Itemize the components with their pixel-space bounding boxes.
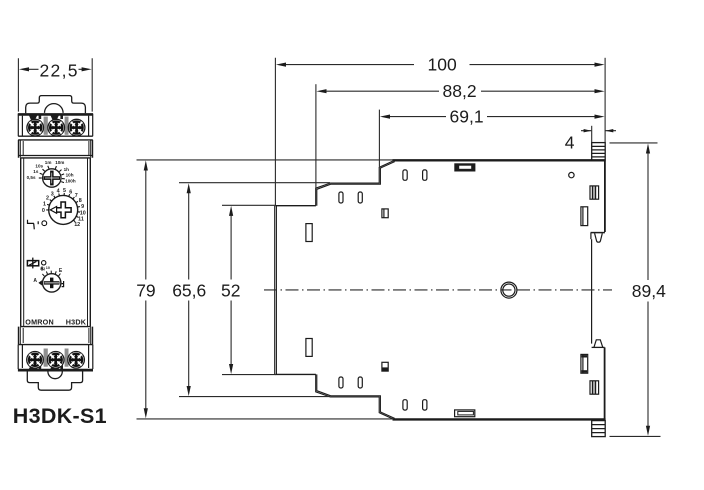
- arrows 52: [229, 206, 233, 216]
- dial1 labels: [27, 160, 76, 184]
- svg-text:7: 7: [75, 193, 78, 199]
- side bottom edge thick: [393, 418, 606, 420]
- latch rod: [591, 239, 593, 343]
- hole: [569, 172, 574, 177]
- ext lines 22,5: [18, 58, 92, 111]
- vent slots deck top: [403, 170, 407, 180]
- ext line 100 left: [274, 58, 276, 205]
- right panel bottom top edge: [592, 346, 605, 348]
- din hook block bottom stripes: [592, 425, 606, 433]
- dial3: [38, 274, 63, 292]
- vent slots shelf top: [339, 192, 343, 203]
- arrows 22,5: [19, 67, 29, 71]
- svg-text:9: 9: [81, 204, 84, 210]
- svg-text:5: 5: [63, 188, 66, 194]
- dim texts: [40, 55, 667, 302]
- lower band: [18, 327, 93, 369]
- svg-text:1s: 1s: [33, 169, 39, 174]
- arrows 4: [584, 129, 592, 132]
- dim line 69,1: [384, 116, 600, 118]
- hatched rect bottom: [590, 381, 599, 394]
- din hook block top stripes: [592, 146, 606, 157]
- svg-text:4: 4: [57, 189, 60, 195]
- top latch tab: [595, 233, 603, 242]
- dim line 52: [230, 211, 232, 370]
- vent slots shelf bottom: [339, 377, 343, 388]
- ext line 4: [591, 126, 593, 143]
- arrows 65,6: [187, 183, 191, 193]
- side top edge thick: [393, 159, 606, 161]
- dim line 65,6: [188, 188, 190, 391]
- svg-text:B2: B2: [40, 267, 45, 271]
- screws bottom: [27, 352, 44, 369]
- svg-text:10m: 10m: [55, 160, 64, 165]
- ext line 69,1: [378, 110, 380, 167]
- svg-text:52: 52: [221, 280, 240, 300]
- svg-text:A: A: [33, 278, 37, 284]
- terminal block top: [18, 114, 93, 140]
- shadow wedges bottom: [29, 365, 63, 369]
- ext lines 65,6: [179, 183, 330, 397]
- side outline top steps: [316, 160, 395, 205]
- shadow wedges: [29, 115, 63, 120]
- center circle: [501, 282, 517, 298]
- right panel top bottom edge: [591, 232, 605, 234]
- svg-text:69,1: 69,1: [450, 107, 484, 127]
- svg-text:0: 0: [42, 208, 45, 214]
- side outline left edge: [275, 206, 277, 375]
- dim line 89,4: [647, 149, 649, 431]
- dial3 ticks: [42, 271, 60, 277]
- svg-text:1: 1: [43, 201, 46, 207]
- svg-text:12: 12: [74, 222, 80, 228]
- svg-text:H3DK-S1: H3DK-S1: [13, 404, 107, 428]
- side outline bottom steps: [316, 374, 395, 419]
- arrows 88,2: [316, 89, 326, 93]
- dim line 100: [280, 64, 600, 66]
- tall slot bottom: [306, 339, 312, 357]
- ext line right: [604, 58, 606, 143]
- dial2 ticks: [46, 193, 80, 222]
- dial2 numbers: [42, 188, 86, 228]
- svg-text:100: 100: [428, 55, 457, 75]
- svg-text:4: 4: [565, 132, 575, 152]
- arrows 69,1: [380, 115, 390, 119]
- ext lines 89,4: [610, 143, 661, 437]
- svg-text:1m: 1m: [45, 160, 52, 165]
- din hook block bottom: [592, 421, 606, 437]
- separator bars top: [44, 117, 48, 135]
- side outline top shelf 52: [275, 205, 316, 207]
- svg-text:65,6: 65,6: [172, 280, 206, 300]
- svg-text:10: 10: [46, 266, 50, 270]
- svg-text:1h: 1h: [64, 167, 70, 172]
- dim line 22,5: [23, 68, 89, 70]
- svg-text:89,4: 89,4: [632, 281, 666, 301]
- svg-text:88,2: 88,2: [443, 81, 477, 101]
- center line: [264, 289, 612, 291]
- bottom edge thick: [18, 369, 93, 372]
- right panel bottom: [604, 347, 606, 418]
- bottom latch tab: [594, 340, 603, 348]
- square vent top: [382, 209, 388, 218]
- din hook block top: [592, 143, 606, 161]
- ext line 88,2: [315, 84, 317, 188]
- face body: [21, 158, 91, 327]
- svg-text:100h: 100h: [65, 179, 76, 184]
- bottom dome: [48, 372, 62, 379]
- svg-text:22,5: 22,5: [40, 60, 78, 80]
- svg-text:H3DK: H3DK: [66, 318, 87, 327]
- ext lines 79: [137, 160, 394, 419]
- tall rect bottom: [581, 354, 588, 373]
- indicator row A: [28, 220, 47, 230]
- arrows 100: [276, 63, 286, 67]
- svg-text:10s: 10s: [35, 163, 43, 168]
- svg-text:OMRON: OMRON: [25, 318, 54, 327]
- svg-text:0,5s: 0,5s: [27, 175, 36, 180]
- relay icon row B: [27, 258, 46, 269]
- separator bars bottom: [44, 349, 48, 367]
- dim line 79: [145, 166, 147, 414]
- bottom plate: [27, 371, 82, 390]
- arrows 89,4: [646, 143, 650, 153]
- svg-text:3: 3: [51, 191, 54, 197]
- arrows 79: [144, 160, 148, 170]
- dim line 4 tails: [581, 130, 616, 132]
- top plate: [26, 96, 86, 114]
- tall slot top: [306, 224, 312, 242]
- vent slots deck bottom: [403, 400, 407, 410]
- label slot top: [455, 164, 475, 171]
- dim line 88,2: [320, 90, 600, 92]
- square vent bottom: [382, 362, 388, 371]
- dial1: [43, 169, 61, 187]
- label slot bottom: [455, 410, 475, 417]
- mid band: [18, 140, 92, 158]
- screws top: [27, 119, 44, 136]
- right panel top: [604, 161, 606, 232]
- svg-text:79: 79: [136, 280, 155, 300]
- dial2: [49, 195, 78, 224]
- svg-text:10h: 10h: [66, 172, 74, 177]
- right panel top notch: [590, 233, 592, 240]
- dial1 ticks: [39, 166, 65, 183]
- top dome: [45, 104, 64, 113]
- svg-text:10: 10: [80, 210, 86, 216]
- dial3 labels: [33, 266, 63, 284]
- tall rect top: [581, 207, 588, 226]
- ext lines 52: [222, 205, 276, 374]
- side outline bottom shelf 52: [275, 373, 316, 375]
- svg-text:6: 6: [69, 190, 72, 196]
- hatched rect top: [590, 186, 599, 199]
- svg-text:2: 2: [46, 196, 49, 202]
